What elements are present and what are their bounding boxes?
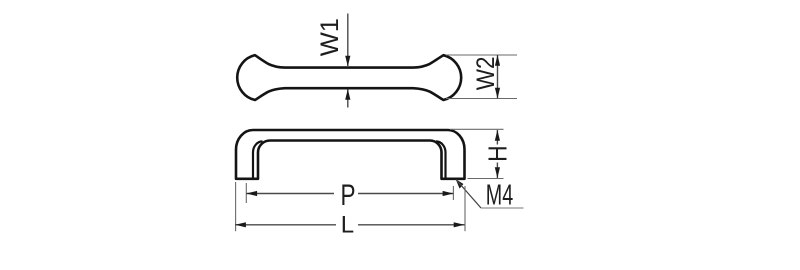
svg-text:M4: M4 bbox=[486, 180, 514, 212]
H extension line bottom bbox=[468, 178, 504, 180]
M4 leader line diagonal bbox=[456, 180, 481, 209]
svg-text:P: P bbox=[341, 178, 356, 212]
L arrow right bbox=[454, 222, 465, 227]
W2 arrow down bbox=[495, 88, 500, 99]
P extension line left bbox=[245, 183, 247, 203]
handle top view (dog-bone outline) bbox=[237, 55, 461, 100]
right leg inner tangent line bbox=[436, 141, 446, 178]
M4 leader line horizontal bbox=[481, 207, 524, 209]
svg-text:H: H bbox=[484, 145, 513, 162]
svg-text:W1: W1 bbox=[316, 18, 344, 56]
L dimension line right part bbox=[358, 224, 465, 226]
dimension W1 lower line bbox=[347, 90, 349, 108]
M4 leader arrow bbox=[456, 179, 464, 189]
L arrow left bbox=[235, 222, 246, 227]
P dimension line right part bbox=[358, 193, 453, 195]
L extension line left bbox=[235, 182, 237, 231]
H dimension line upper bbox=[496, 130, 498, 145]
H arrow down bbox=[495, 167, 500, 178]
L dimension line left part bbox=[235, 224, 336, 226]
handle front view silhouette bbox=[236, 130, 465, 179]
W1 arrow up bbox=[345, 89, 350, 100]
P arrow right bbox=[443, 191, 454, 196]
W2 extension line bottom bbox=[446, 98, 517, 100]
L extension line right bbox=[464, 186, 466, 231]
P dimension line left part bbox=[246, 193, 334, 195]
W2 dimension line bbox=[497, 55, 499, 99]
H extension line top bbox=[450, 128, 504, 130]
H dimension line lower bbox=[496, 163, 498, 179]
left leg inner tangent line bbox=[253, 141, 263, 178]
svg-text:W2: W2 bbox=[472, 56, 500, 90]
W2 arrow up bbox=[495, 55, 500, 66]
P extension line right bbox=[452, 186, 454, 200]
dimension W1 upper line bbox=[347, 14, 349, 67]
W1 arrow down bbox=[345, 56, 350, 67]
W2 extension line top bbox=[446, 54, 517, 56]
P arrow left bbox=[246, 191, 257, 196]
svg-text:L: L bbox=[341, 211, 354, 238]
H arrow up bbox=[495, 130, 500, 141]
